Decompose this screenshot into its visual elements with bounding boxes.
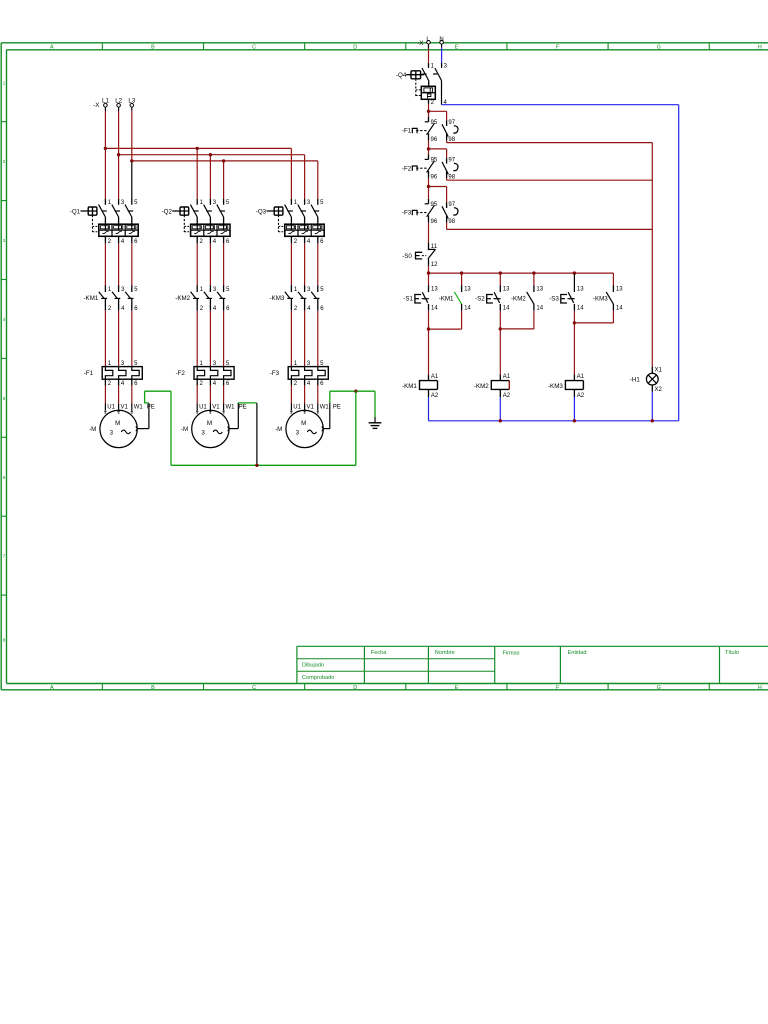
svg-text:98: 98	[448, 219, 455, 225]
svg-text:5: 5	[226, 200, 230, 206]
svg-text:4: 4	[307, 381, 311, 387]
svg-text:3: 3	[307, 287, 311, 293]
svg-text:2: 2	[108, 381, 112, 387]
svg-text:-Q3: -Q3	[256, 208, 267, 215]
svg-text:96: 96	[431, 174, 438, 180]
svg-text:-F3: -F3	[270, 370, 280, 377]
svg-text:3: 3	[3, 238, 6, 244]
svg-text:M: M	[115, 420, 120, 427]
svg-text:4: 4	[121, 239, 125, 245]
svg-text:-H1: -H1	[630, 376, 641, 383]
svg-text:-F3: -F3	[402, 210, 412, 217]
svg-text:6: 6	[3, 475, 6, 481]
svg-text:5: 5	[226, 287, 230, 293]
svg-text:13: 13	[431, 287, 438, 293]
svg-text:-KM1: -KM1	[439, 295, 454, 302]
svg-text:D: D	[353, 44, 357, 50]
svg-text:-Q1: -Q1	[70, 208, 81, 215]
svg-text:14: 14	[616, 306, 623, 312]
svg-text:-F1: -F1	[402, 128, 412, 135]
svg-text:W1: W1	[320, 404, 330, 410]
svg-text:X2: X2	[655, 387, 663, 393]
svg-text:-KM3: -KM3	[593, 295, 608, 302]
svg-text:1: 1	[294, 287, 298, 293]
svg-text:-KM3: -KM3	[548, 383, 563, 390]
svg-text:H: H	[758, 685, 762, 691]
svg-text:6: 6	[134, 306, 138, 312]
svg-text:-F1: -F1	[84, 370, 94, 377]
svg-text:U1: U1	[293, 404, 301, 410]
svg-text:5: 5	[320, 287, 324, 293]
svg-text:13: 13	[536, 287, 543, 293]
svg-text:1: 1	[200, 287, 204, 293]
svg-text:-S2: -S2	[475, 295, 485, 302]
svg-text:Fecha: Fecha	[371, 650, 387, 656]
svg-text:2: 2	[200, 306, 204, 312]
svg-text:97: 97	[448, 157, 455, 163]
svg-text:-KM2: -KM2	[511, 295, 526, 302]
svg-text:A2: A2	[503, 393, 511, 399]
svg-text:W1: W1	[134, 404, 144, 410]
svg-text:2: 2	[200, 381, 204, 387]
svg-text:14: 14	[536, 306, 543, 312]
svg-text:3: 3	[121, 287, 125, 293]
svg-text:-KM1: -KM1	[402, 383, 417, 390]
svg-text:5: 5	[320, 200, 324, 206]
svg-text:M: M	[207, 420, 212, 427]
svg-text:13: 13	[503, 287, 510, 293]
svg-text:4: 4	[213, 381, 217, 387]
svg-text:C: C	[252, 44, 256, 50]
svg-text:A1: A1	[503, 374, 511, 380]
svg-text:W1: W1	[226, 404, 236, 410]
svg-text:97: 97	[448, 120, 455, 126]
svg-text:Comprobado: Comprobado	[302, 675, 334, 681]
svg-text:PE: PE	[147, 404, 155, 410]
svg-text:E: E	[455, 44, 459, 50]
svg-text:95: 95	[431, 120, 438, 126]
svg-text:D: D	[353, 685, 357, 691]
svg-text:98: 98	[448, 174, 455, 180]
svg-text:Dibujado: Dibujado	[302, 662, 324, 668]
svg-text:Firmas: Firmas	[503, 650, 520, 656]
svg-text:8: 8	[3, 637, 6, 643]
svg-text:13: 13	[577, 287, 584, 293]
svg-text:6: 6	[134, 239, 138, 245]
svg-text:A: A	[50, 685, 54, 691]
svg-text:G: G	[657, 44, 661, 50]
svg-text:5: 5	[134, 287, 138, 293]
svg-text:X1: X1	[655, 368, 663, 374]
svg-text:G: G	[657, 685, 661, 691]
svg-text:-Q2: -Q2	[162, 208, 173, 215]
svg-text:14: 14	[577, 306, 584, 312]
svg-text:2: 2	[108, 239, 112, 245]
svg-text:4: 4	[307, 306, 311, 312]
svg-text:4: 4	[121, 381, 125, 387]
svg-text:-F2: -F2	[176, 370, 186, 377]
svg-text:M: M	[301, 420, 306, 427]
svg-text:B: B	[151, 685, 155, 691]
svg-text:1: 1	[108, 200, 112, 206]
svg-text:4: 4	[121, 306, 125, 312]
svg-text:13: 13	[616, 287, 623, 293]
svg-text:3: 3	[201, 429, 205, 436]
svg-text:5: 5	[134, 200, 138, 206]
svg-text:6: 6	[226, 381, 230, 387]
svg-text:12: 12	[431, 262, 438, 268]
svg-text:13: 13	[464, 287, 471, 293]
svg-text:3: 3	[213, 287, 217, 293]
svg-text:U1: U1	[107, 404, 115, 410]
svg-text:-X: -X	[417, 40, 423, 47]
svg-text:-M: -M	[181, 426, 188, 433]
svg-text:7: 7	[3, 554, 6, 560]
svg-text:14: 14	[464, 306, 471, 312]
svg-text:-F2: -F2	[402, 165, 412, 172]
svg-text:-KM2: -KM2	[474, 383, 489, 390]
svg-text:96: 96	[431, 137, 438, 143]
svg-text:6: 6	[226, 306, 230, 312]
svg-text:-S1: -S1	[403, 295, 413, 302]
svg-text:B: B	[151, 44, 155, 50]
svg-text:6: 6	[320, 239, 324, 245]
svg-text:6: 6	[320, 306, 324, 312]
svg-text:V1: V1	[212, 404, 220, 410]
svg-text:2: 2	[294, 381, 298, 387]
svg-text:96: 96	[431, 219, 438, 225]
svg-text:V1: V1	[121, 404, 129, 410]
svg-text:-KM1: -KM1	[84, 295, 99, 302]
svg-text:A1: A1	[431, 374, 439, 380]
svg-text:Título: Título	[725, 650, 739, 656]
svg-text:6: 6	[226, 239, 230, 245]
svg-text:V1: V1	[307, 404, 315, 410]
svg-text:1: 1	[200, 200, 204, 206]
svg-text:Entidad: Entidad	[568, 650, 587, 656]
svg-text:97: 97	[448, 202, 455, 208]
svg-text:1: 1	[294, 200, 298, 206]
svg-text:14: 14	[431, 306, 438, 312]
svg-text:3: 3	[213, 200, 217, 206]
svg-text:C: C	[252, 685, 256, 691]
svg-text:1: 1	[3, 80, 6, 86]
svg-text:A1: A1	[577, 374, 585, 380]
svg-text:3: 3	[444, 64, 448, 70]
svg-text:2: 2	[294, 306, 298, 312]
svg-text:H: H	[758, 44, 762, 50]
svg-text:95: 95	[431, 202, 438, 208]
svg-text:A2: A2	[577, 393, 585, 399]
svg-text:3: 3	[110, 429, 114, 436]
svg-text:2: 2	[108, 306, 112, 312]
svg-text:6: 6	[134, 381, 138, 387]
svg-text:-M: -M	[89, 426, 96, 433]
svg-text:2: 2	[3, 159, 6, 165]
svg-text:5: 5	[3, 396, 6, 402]
svg-text:2: 2	[294, 239, 298, 245]
svg-text:14: 14	[503, 306, 510, 312]
svg-text:1: 1	[108, 287, 112, 293]
svg-text:2: 2	[431, 100, 435, 106]
svg-text:U1: U1	[199, 404, 207, 410]
svg-text:98: 98	[448, 137, 455, 143]
svg-text:-M: -M	[275, 426, 282, 433]
svg-text:3: 3	[307, 200, 311, 206]
svg-text:-S3: -S3	[549, 295, 559, 302]
svg-text:-KM2: -KM2	[175, 295, 190, 302]
svg-text:1: 1	[431, 64, 435, 70]
svg-text:-S0: -S0	[402, 253, 412, 260]
svg-text:A2: A2	[431, 393, 439, 399]
svg-text:-KM3: -KM3	[270, 295, 285, 302]
svg-text:Nombre: Nombre	[435, 650, 455, 656]
svg-text:A: A	[50, 44, 54, 50]
svg-text:6: 6	[320, 381, 324, 387]
svg-text:3: 3	[121, 200, 125, 206]
svg-text:4: 4	[213, 239, 217, 245]
svg-text:3: 3	[296, 429, 300, 436]
svg-text:E: E	[455, 685, 459, 691]
svg-text:4: 4	[307, 239, 311, 245]
svg-text:95: 95	[431, 157, 438, 163]
svg-text:PE: PE	[333, 404, 341, 410]
svg-text:4: 4	[213, 306, 217, 312]
svg-text:PE: PE	[239, 404, 247, 410]
svg-text:-Q4: -Q4	[396, 72, 407, 79]
svg-text:2: 2	[200, 239, 204, 245]
svg-text:4: 4	[3, 317, 6, 323]
svg-text:-X: -X	[93, 102, 99, 109]
